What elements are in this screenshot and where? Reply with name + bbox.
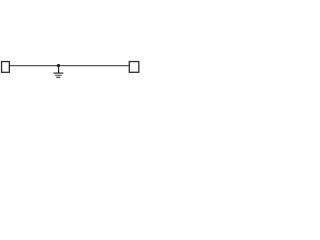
wire xyxy=(10,65,130,67)
ground xyxy=(53,66,63,78)
terminal box P1 (left) xyxy=(2,62,10,73)
terminal box P2 (right) xyxy=(129,62,139,73)
node junction dot xyxy=(57,64,60,67)
